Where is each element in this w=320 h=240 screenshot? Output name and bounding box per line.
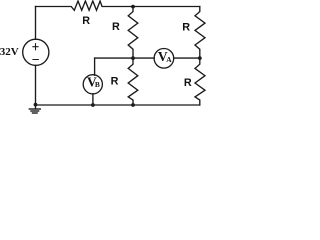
svg-text:R: R — [182, 21, 190, 33]
svg-text:R: R — [112, 21, 120, 33]
svg-text:32V: 32V — [0, 46, 19, 58]
svg-text:R: R — [111, 76, 119, 88]
svg-text:R: R — [82, 15, 90, 27]
svg-text:R: R — [184, 77, 192, 89]
svg-text:B: B — [95, 80, 100, 89]
svg-text:A: A — [166, 55, 172, 64]
